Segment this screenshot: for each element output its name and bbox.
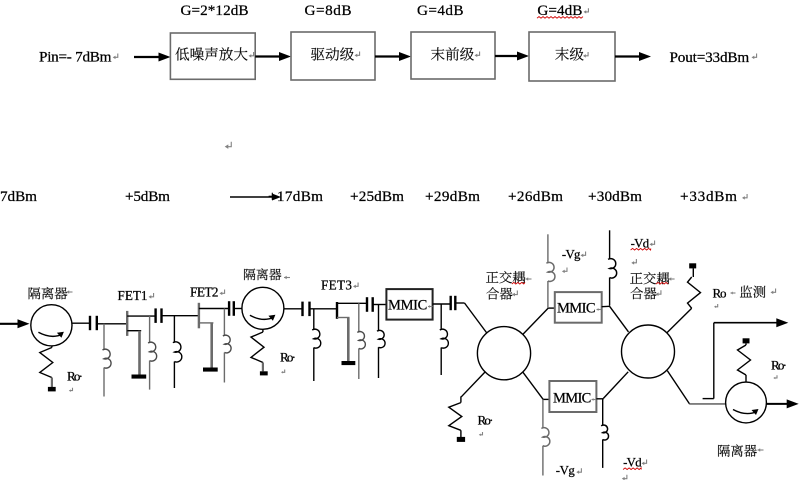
FET2 drain lead [199,308,229,310]
arrow amp2-amp3 [375,55,400,57]
monitor output arrow [714,322,778,324]
MMIC amp 3 (bottom) [549,381,596,412]
svg-text:FET3: FET3 [321,278,352,293]
svg-text:MMIC: MMIC [553,391,591,407]
MMIC bottom to coupler 2 [596,398,603,400]
quadrature coupler 2 [622,325,675,378]
svg-text:Ro·: Ro· [478,413,494,428]
coupler1 to Ro load [461,372,485,397]
wire circ2-cap4 [284,308,303,310]
ground cap 2 [260,371,268,375]
label 监测 [740,286,752,298]
label 正交耦合器 2 [630,272,642,283]
coupling cap 2 [154,308,156,323]
label 隔离器 1 [29,287,41,299]
label 正交耦合器 1 [486,271,498,282]
arrow to +17dBm [230,196,273,198]
svg-text:Ro·: Ro· [280,349,296,364]
spellcheck squiggle under G=4dB [537,17,583,19]
svg-text:7dBm: 7dBm [0,188,37,205]
FET1 source lead [127,330,141,332]
resistor Ro under circulator 2 [262,329,264,332]
paragraph mark [226,142,231,147]
svg-text:-Vg: -Vg [562,248,581,262]
svg-text:MMIC: MMIC [388,298,427,314]
wire circ1-cap1 [72,322,90,324]
circulator 3 (output isolator) [726,382,767,423]
coupling cap 1 [89,316,91,330]
svg-text:+29dBm: +29dBm [425,188,480,205]
label 隔离器 3 [718,445,730,457]
ground FET1 [132,375,147,379]
arrow into amp1 [134,56,160,58]
FET1 bar [126,311,128,336]
svg-text:G=4dB: G=4dB [417,2,464,19]
coupling cap 5 [366,297,368,312]
monitor resistor Ro (to +V) [688,277,701,308]
arrow amp3-amp4 [495,55,518,57]
ground cap (coupler1 load) [457,437,465,442]
arrow amp1-amp2 [255,55,280,57]
coupler1 to MMIC top [523,308,549,335]
circulator 2 (isolator) [242,287,284,329]
svg-text:+30dBm: +30dBm [588,188,642,205]
coupling cap 4 [301,302,303,317]
ground FET2 [203,368,218,372]
svg-text:G=4dB: G=4dB [537,2,582,19]
svg-text:+26dBm: +26dBm [508,188,563,205]
wire cap4-FET3 gate [310,308,338,310]
svg-text:+5dBm: +5dBm [125,188,170,205]
svg-text:Ro·: Ro· [67,369,83,384]
svg-text:Ro: Ro [713,286,727,301]
drain choke stub (FET3) [358,303,360,332]
FET3 source lead [337,317,350,319]
wire cap1-FET1 gate [97,323,127,325]
svg-text:G=2*12dB: G=2*12dB [181,2,249,19]
ground FET3 [342,361,356,365]
FET2 source lead [199,322,214,324]
-Vg feed line (bottom) [542,399,544,428]
label 隔离器 2 [244,269,255,281]
svg-text:+25dBm: +25dBm [350,188,404,205]
gate bias stub + choke L (FET1) [103,324,105,350]
wire cap6 to coupler 1 [455,302,464,304]
gate bias stub + choke (FET3) [313,309,315,330]
svg-text:-Vd: -Vd [623,455,642,469]
svg-text:FET1: FET1 [118,288,148,303]
coupling cap 3 [228,301,230,316]
drain choke stub (FET1) [149,316,151,343]
amp block 末前级 [411,32,495,79]
coupler2 to monitor resistor [667,308,692,333]
ground cap 1 [48,387,56,392]
bias choke stub after MMIC1 [440,304,442,330]
wire MMIC1-cap6 [433,303,451,305]
svg-text:+33dBm: +33dBm [680,188,737,205]
FET3 drain lead [337,302,367,304]
post-cap choke stub [373,304,387,306]
MMIC amp 2 (top) [555,292,602,323]
MMIC amp 1 [386,289,432,320]
quadrature coupler 1 [477,327,530,380]
wire cap2-FET2 gate [162,315,200,317]
svg-text:+17dBm: +17dBm [268,188,323,205]
-Vd feed line (top) [609,230,611,259]
amp block 低噪声放大 [170,33,255,79]
input wire arrow [0,323,19,325]
amp block 末级 [529,32,615,81]
MMIC top to coupler 2 [602,305,610,307]
drain choke stub (FET2) [223,309,225,337]
coupling cap 6 [450,296,452,310]
coupler1 to MMIC bottom [523,372,544,400]
FET3 bar [336,302,338,319]
load resistor Ro (coupler1) [449,403,462,431]
amp block 驱动级 [291,32,375,80]
svg-text:Ro·: Ro· [771,358,787,373]
output arrow [615,55,639,57]
FET2 bar [198,303,200,329]
svg-text:Pin=- 7dBm: Pin=- 7dBm [39,48,112,65]
monitor tap line [713,323,715,399]
svg-text:FET2: FET2 [190,285,219,300]
svg-text:MMIC: MMIC [557,301,596,317]
-Vg feed line (top) [547,234,549,263]
-Vd feed line (bottom) [602,398,604,426]
output arrow [766,403,787,405]
FET1 drain lead [127,315,155,317]
svg-text:Pout=33dBm: Pout=33dBm [670,49,750,66]
coupler2 to circulator 3 [667,371,689,404]
svg-text:G=8dB: G=8dB [305,2,352,19]
resistor Ro above circulator 3 [743,338,750,343]
gate bias stub + choke (FET2) [173,316,175,343]
resistor Ro under circulator 1 [51,346,53,348]
circulator 1 (isolator) [31,305,72,346]
wire cap3-circ2 [234,308,242,310]
svg-text:-Vg: -Vg [556,464,576,478]
